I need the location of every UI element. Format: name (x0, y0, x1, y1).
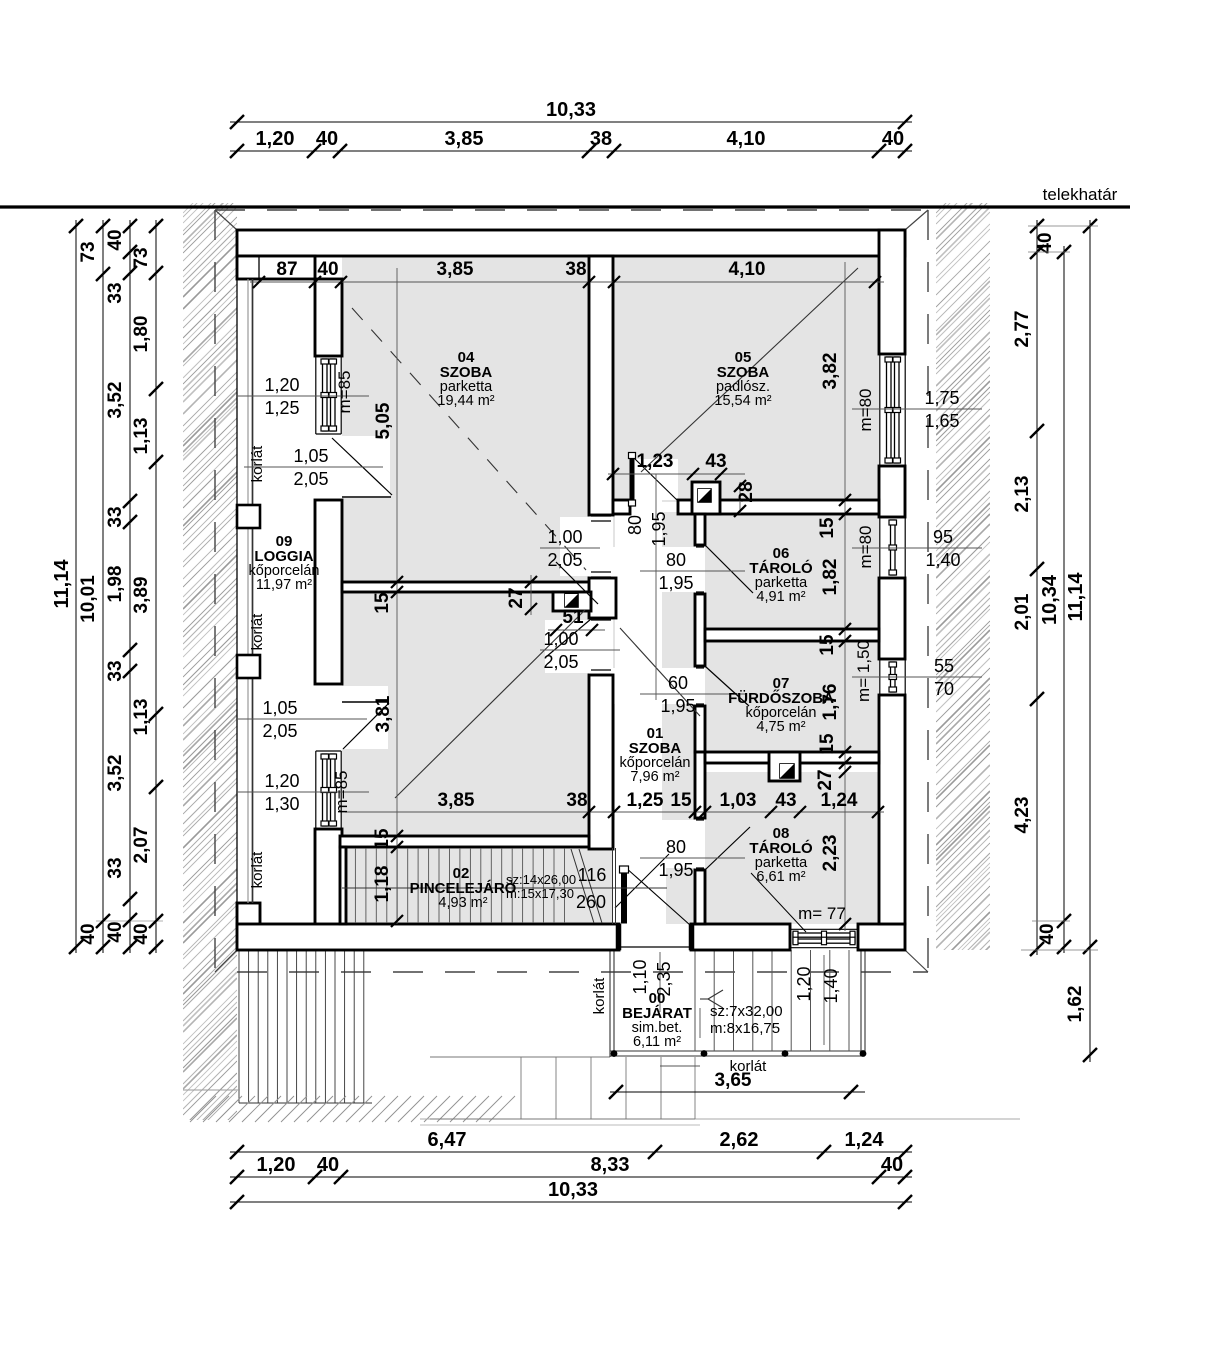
outer wall right pier 4 (879, 695, 905, 924)
terrain line under terrace (183, 1089, 240, 1091)
svg-text:2,13: 2,13 (1012, 476, 1033, 513)
svg-text:73: 73 (131, 247, 152, 268)
loggia right wall pier middle (315, 500, 342, 684)
svg-text:80: 80 (666, 550, 686, 570)
svg-text:95: 95 (933, 527, 953, 547)
svg-text:10,33: 10,33 (548, 1179, 598, 1201)
wall 03|hall (589, 675, 613, 849)
door DL1 loggia leaf (332, 438, 392, 495)
door D07 leaf (706, 667, 749, 706)
flue symbol chimney 03 (565, 594, 578, 607)
door D03 threshold lines (591, 619, 611, 621)
room05 bottom wall left piece (613, 500, 630, 514)
room05 bottom wall right piece (678, 500, 879, 514)
terrain hatch right band (936, 159, 990, 1038)
svg-text:8,33: 8,33 (591, 1154, 630, 1176)
svg-text:1,95: 1,95 (660, 696, 695, 716)
window RW2 room06 m=80 (880, 517, 905, 578)
svg-text:60: 60 (668, 673, 688, 693)
svg-text:2,77: 2,77 (1012, 311, 1033, 348)
svg-text:korlát: korlát (249, 445, 266, 483)
door D06 thresholds (696, 546, 704, 548)
door DL2 loggia leaf (343, 703, 389, 749)
svg-text:40: 40 (1037, 923, 1058, 944)
svg-text:m=80: m=80 (856, 526, 875, 569)
svg-text:1,20: 1,20 (264, 771, 299, 791)
svg-text:116: 116 (578, 865, 607, 885)
right chain line B 10,34 (1063, 246, 1065, 953)
hall diagonal to bath (620, 628, 700, 716)
door D05 swing (635, 459, 678, 501)
room 07 floor (705, 641, 879, 752)
left chain line 2 (102, 220, 104, 953)
dim 3,65 porch (610, 1091, 865, 1093)
svg-text:3,85: 3,85 (437, 259, 474, 280)
svg-text:51: 51 (562, 607, 584, 628)
terrain hatch left band (183, 159, 237, 1212)
dim door D08 80/1,95 (640, 857, 745, 859)
svg-text:15: 15 (372, 592, 393, 614)
svg-text:m=85: m=85 (332, 771, 351, 814)
door DL2 open leaf line (342, 701, 388, 703)
svg-text:1,20: 1,20 (257, 1154, 296, 1176)
svg-text:55: 55 (934, 656, 954, 676)
room 04 dashed diagonal (352, 308, 586, 570)
room 06 floor (705, 512, 879, 629)
svg-text:1,25: 1,25 (627, 790, 664, 811)
door D06 leaf (706, 546, 753, 593)
svg-text:260: 260 (576, 892, 606, 912)
svg-text:2,05: 2,05 (262, 721, 297, 741)
hall east wall piece a (695, 514, 705, 545)
svg-text:3,52: 3,52 (105, 382, 126, 419)
svg-text:40: 40 (131, 923, 152, 944)
svg-text:6,11 m²: 6,11 m² (633, 1034, 681, 1050)
svg-text:3,52: 3,52 (105, 755, 126, 792)
window RW3 bath m=1.50 (880, 659, 905, 695)
roof corner diagonal top-left (215, 210, 237, 230)
loggia post 2 (237, 655, 260, 678)
stair right edge double line (612, 848, 614, 924)
svg-text:1,20: 1,20 (794, 966, 814, 1001)
bottom dim chain 1 (230, 1151, 912, 1153)
chimney block room05 (692, 482, 720, 514)
room 01 hall floor (613, 512, 695, 924)
svg-text:38: 38 (590, 128, 612, 150)
door DL1 open leaf line (342, 496, 391, 498)
svg-text:1,95: 1,95 (658, 860, 693, 880)
svg-text:40: 40 (881, 1154, 903, 1176)
dim window W1 1,20/1,25 (237, 395, 369, 397)
stair treads 02 (355, 848, 564, 923)
svg-text:1,10: 1,10 (630, 959, 650, 994)
svg-text:m=80: m=80 (856, 389, 875, 432)
svg-text:1,20: 1,20 (264, 375, 299, 395)
stair room left wall (340, 847, 346, 924)
svg-text:1,05: 1,05 (293, 446, 328, 466)
svg-text:11,14: 11,14 (51, 559, 73, 609)
window BW room08 m=77 (790, 929, 858, 947)
svg-text:3,85: 3,85 (445, 128, 484, 150)
door D08 thresholds (696, 819, 704, 821)
dim door D07 60/1,95 (640, 693, 745, 695)
interior bottom chain 3,85/38/1,25/15/1,03/43/1,24 (345, 811, 884, 813)
entrance threshold (621, 946, 689, 948)
svg-text:43: 43 (705, 451, 726, 472)
svg-text:27: 27 (815, 769, 836, 790)
svg-text:1,82: 1,82 (820, 559, 841, 596)
svg-text:87: 87 (276, 259, 297, 280)
svg-text:1,13: 1,13 (131, 418, 152, 455)
entrance steps treads (695, 950, 849, 1051)
svg-text:33: 33 (105, 857, 126, 878)
door swath D08 (613, 820, 705, 868)
wall 06|07 (705, 629, 879, 641)
svg-text:80: 80 (666, 837, 686, 857)
svg-text:3,89: 3,89 (131, 577, 152, 614)
svg-text:m= 1,50: m= 1,50 (854, 640, 873, 702)
wall 04|05 (589, 256, 613, 515)
chimney notch 07|08 (769, 752, 800, 781)
room 02 stair floor (346, 847, 613, 924)
svg-text:7,96 m²: 7,96 m² (630, 769, 679, 785)
svg-text:1,62: 1,62 (1065, 986, 1086, 1023)
svg-text:4,10: 4,10 (727, 128, 766, 150)
svg-text:3,81: 3,81 (373, 695, 394, 732)
svg-text:3,85: 3,85 (438, 790, 475, 811)
railing posts dots (611, 1050, 618, 1057)
svg-text:m=85: m=85 (335, 371, 354, 414)
outer wall right pier 2 (879, 466, 905, 517)
door swath D05 (630, 459, 678, 500)
svg-text:2,62: 2,62 (720, 1129, 759, 1151)
chimney block room03 (553, 592, 591, 611)
svg-text:15: 15 (817, 634, 838, 656)
dim window RW1 1,75/1,65 (852, 408, 982, 410)
svg-text:2,05: 2,05 (543, 652, 578, 672)
svg-text:2,05: 2,05 (293, 469, 328, 489)
room 05 diagonal (641, 268, 858, 472)
room 04 floor (342, 256, 589, 582)
door D04 leaf (556, 562, 598, 604)
dim door DL1 1,05/2,05 (244, 466, 383, 468)
loggia right wall pier bottom (315, 829, 342, 926)
outer wall top-left loggia stub (237, 256, 315, 279)
svg-text:40: 40 (882, 128, 904, 150)
door swath DL1 (342, 436, 390, 498)
right chain line A (1036, 220, 1038, 955)
svg-text:10,33: 10,33 (546, 99, 596, 121)
door swath vertical hall (615, 500, 662, 924)
svg-text:1,18: 1,18 (372, 866, 393, 903)
loggia right wall pier top (315, 279, 342, 356)
svg-text:4,10: 4,10 (729, 259, 766, 280)
door swath D04 (560, 517, 613, 576)
svg-text:4,23: 4,23 (1012, 797, 1033, 834)
lower landing grid (430, 1057, 695, 1119)
svg-text:40: 40 (317, 1154, 339, 1176)
svg-text:38: 38 (565, 259, 586, 280)
dim 28 chimney depth (739, 482, 741, 514)
svg-text:m:8x16,75: m:8x16,75 (710, 1020, 780, 1037)
svg-text:2,23: 2,23 (820, 835, 841, 872)
svg-text:15: 15 (372, 828, 393, 850)
left chains connector line (96, 920, 163, 922)
svg-text:2,05: 2,05 (547, 550, 582, 570)
svg-text:1,24: 1,24 (845, 1129, 885, 1151)
outer wall bottom (door-window pier) (691, 924, 790, 950)
door swath D07 (613, 668, 705, 704)
svg-text:6,61 m²: 6,61 m² (756, 869, 805, 885)
roof corner diagonal bottom-right (905, 950, 928, 972)
svg-text:33: 33 (105, 660, 126, 681)
svg-text:40: 40 (316, 128, 338, 150)
svg-text:korlát: korlát (249, 613, 266, 651)
roof corner diagonal top-right (905, 210, 928, 230)
outer wall right pier 3 (879, 578, 905, 659)
svg-text:1,00: 1,00 (547, 527, 582, 547)
svg-text:40: 40 (1035, 232, 1056, 253)
building edge line loggia (236, 279, 238, 903)
svg-text:73: 73 (78, 241, 99, 262)
porch steps dim 1,20/1,40 rotated (823, 955, 825, 1045)
svg-text:28: 28 (736, 481, 757, 502)
dim window W2 1,20/1,30 (236, 791, 369, 793)
svg-text:40: 40 (317, 259, 338, 280)
svg-text:1,13: 1,13 (131, 699, 152, 736)
wall block at D04/D03 (589, 578, 616, 618)
svg-text:15: 15 (817, 517, 838, 539)
outer wall bottom (right corner) (858, 924, 905, 950)
svg-text:38: 38 (566, 790, 587, 811)
door D05 leaf bar (630, 458, 634, 502)
window RW1 room05 m=80 (880, 354, 905, 466)
svg-text:1,95: 1,95 (649, 511, 669, 546)
stair break diagonals (571, 849, 594, 923)
door D05 jambs (629, 502, 631, 512)
loggia post 1 (237, 505, 260, 528)
door D03 leaf (546, 619, 591, 657)
roof overhang dashed top (215, 209, 930, 211)
left chain line 3 (129, 220, 131, 953)
svg-text:10,34: 10,34 (1039, 574, 1061, 625)
svg-text:korlát: korlát (591, 977, 608, 1015)
loggia railing korlat double line (247, 279, 249, 903)
interior top chain 87/40/3,85/38/4,10 (250, 281, 884, 283)
dim 51 chimney 03 (548, 629, 605, 631)
porch railing bottom (610, 1050, 865, 1052)
svg-text:1,40: 1,40 (821, 968, 841, 1003)
dim door D03 1,00/2,05 (540, 649, 620, 651)
svg-text:1,65: 1,65 (924, 411, 959, 431)
svg-text:15,54 m²: 15,54 m² (714, 393, 771, 409)
roof overhang dashed left (214, 210, 216, 972)
svg-text:80: 80 (625, 515, 645, 535)
svg-text:15: 15 (817, 733, 838, 755)
svg-text:2,01: 2,01 (1012, 593, 1033, 630)
wall 07|08 (705, 752, 879, 763)
terrace steps bottom-left (239, 950, 372, 1103)
outer wall bottom (left part) (237, 924, 619, 950)
interior right room chain (3,82/15/1,82/15/1,76/15/27/2,23) (844, 262, 846, 931)
dim 27 wall 04|03 (530, 575, 532, 615)
roof corner diagonal bottom-left (215, 950, 237, 972)
svg-text:1,23: 1,23 (637, 451, 674, 472)
svg-text:1,00: 1,00 (543, 629, 578, 649)
svg-text:m:15x17,30: m:15x17,30 (506, 886, 574, 901)
svg-text:telekhatár: telekhatár (1043, 185, 1118, 204)
stairs door swing X (615, 854, 669, 908)
svg-text:sz:7x32,00: sz:7x32,00 (710, 1003, 783, 1020)
window W2 loggia wall m=85 (316, 751, 341, 829)
hall east wall piece c (695, 706, 705, 752)
telekhatar property line (0, 205, 1130, 208)
wall division line x259 (258, 256, 260, 279)
outer wall bottom-left stub (237, 903, 260, 926)
svg-text:10,01: 10,01 (78, 575, 99, 623)
svg-text:sz:14x26,00: sz:14x26,00 (506, 872, 576, 887)
svg-text:6,47: 6,47 (428, 1129, 467, 1151)
door D08 leaf (706, 827, 750, 869)
svg-text:4,75 m²: 4,75 m² (756, 719, 805, 735)
svg-text:1,25: 1,25 (264, 398, 299, 418)
svg-text:15: 15 (670, 790, 692, 811)
right chain line C 11,14 (1089, 220, 1091, 1062)
dim door D05 80/1,95 rotated (655, 474, 657, 700)
svg-text:1,40: 1,40 (925, 550, 960, 570)
svg-text:1,95: 1,95 (658, 573, 693, 593)
dim window RW3 55/70 (852, 676, 982, 678)
bottom dim chain 2 (230, 1176, 912, 1178)
entrance door jamb left (616, 924, 621, 950)
porch railing right (860, 950, 862, 1051)
svg-text:1,24: 1,24 (821, 790, 858, 811)
svg-text:33: 33 (105, 506, 126, 527)
svg-text:2,07: 2,07 (131, 827, 152, 864)
svg-text:3,82: 3,82 (820, 353, 841, 390)
dim door DL2 1,05/2,05 (236, 718, 367, 720)
steps walk line arrow (708, 990, 723, 999)
ground hatch strip (190, 1096, 515, 1122)
porch railing left (609, 950, 611, 1057)
svg-text:40: 40 (105, 921, 126, 942)
svg-text:1,75: 1,75 (924, 388, 959, 408)
stair walk line (342, 887, 667, 889)
left chain line 1 total 11,14 (75, 220, 77, 953)
dim door D06 80/1,95 (640, 570, 745, 572)
svg-text:19,44 m²: 19,44 m² (437, 393, 494, 409)
dim 1,23 / 43 top of hall (608, 473, 745, 475)
outer wall top (237, 230, 905, 256)
hall east wall piece b (695, 594, 705, 666)
wall 04|03 (342, 582, 589, 592)
svg-text:korlát: korlát (730, 1058, 768, 1075)
svg-text:33: 33 (105, 282, 126, 303)
svg-text:5,05: 5,05 (373, 402, 394, 439)
outer wall right pier 1 (879, 230, 905, 354)
hall east wall piece e (695, 870, 705, 924)
svg-text:1,05: 1,05 (262, 698, 297, 718)
flue symbol chimney 07 (780, 764, 794, 778)
flue symbol chimney 05 (698, 489, 711, 502)
svg-text:27: 27 (506, 587, 527, 608)
roof overhang dashed bottom (237, 971, 928, 973)
door swath stairs (613, 849, 666, 924)
svg-text:11,14: 11,14 (1065, 572, 1087, 622)
svg-text:70: 70 (934, 679, 954, 699)
svg-text:11,97 m²: 11,97 m² (256, 577, 312, 593)
wall 03|02 (340, 836, 589, 847)
svg-text:40: 40 (105, 229, 126, 250)
left chain line 4 (155, 220, 157, 953)
hall east wall piece d (695, 752, 705, 818)
stairs door leaf bar (622, 873, 627, 923)
porch door dim 1,10/2,35 rotated (659, 952, 661, 1012)
dim window RW2 95/1,40 (852, 547, 982, 549)
room 03 floor (342, 592, 589, 836)
entrance door jamb right (689, 924, 694, 950)
svg-text:1,80: 1,80 (131, 316, 152, 353)
door D04 threshold lines (591, 515, 611, 517)
window W1 loggia wall m=85 (316, 356, 341, 434)
svg-text:1,98: 1,98 (105, 566, 126, 603)
room 03 diagonal (395, 610, 585, 798)
svg-text:1,30: 1,30 (264, 794, 299, 814)
dim door D04 1,00/2,05 (540, 547, 600, 549)
door swath D06 (613, 547, 705, 592)
room 08 diagonal (751, 873, 806, 932)
svg-text:m= 77: m= 77 (798, 904, 846, 923)
svg-text:43: 43 (775, 790, 796, 811)
terrain lines bottom (420, 1118, 1020, 1120)
svg-text:1,03: 1,03 (720, 790, 757, 811)
door swath D03 (545, 620, 613, 673)
top dim total 10,33 (230, 121, 912, 123)
door D07 thresholds (696, 667, 704, 669)
svg-text:40: 40 (78, 923, 99, 944)
room 05 floor (613, 256, 879, 502)
svg-text:4,93 m²: 4,93 m² (438, 895, 487, 911)
bottom dim total 10,33 (230, 1201, 912, 1203)
right extension lines (1028, 225, 1098, 227)
svg-text:4,91 m²: 4,91 m² (756, 589, 805, 605)
svg-text:korlát: korlát (249, 851, 266, 889)
door swath DL2 (342, 686, 388, 749)
roof overhang dashed right (927, 210, 929, 974)
svg-text:1,20: 1,20 (256, 128, 295, 150)
room 08 floor (705, 772, 879, 924)
top dim chain (230, 150, 912, 152)
interior left room chain (5,05/15/3,81/15/1,18) (396, 268, 398, 924)
